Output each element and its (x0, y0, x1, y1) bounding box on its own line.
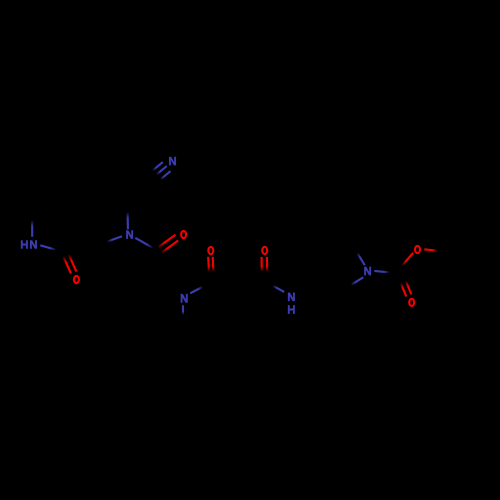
amide2 C=O line a (261, 257, 263, 271)
bond ring-N left (108, 236, 123, 241)
label nitrile N (170, 157, 175, 166)
label H of HN (22, 240, 27, 249)
label ring N (127, 230, 132, 239)
lactam C=O line b (69, 255, 77, 272)
bond N1 down (methyl) (182, 305, 184, 314)
bond C2 to N2H (273, 286, 284, 292)
label ester O single (415, 246, 420, 253)
ester O to tBu (424, 249, 437, 250)
acyl C=O line a (158, 235, 175, 248)
amide1 C=O line b (212, 257, 215, 272)
nitrile triple line a (153, 162, 163, 170)
nitrile triple line c (161, 171, 171, 179)
lactam C=O line a (63, 257, 71, 274)
label N1 (182, 294, 187, 303)
label N3 (365, 267, 370, 276)
bond N1 to C1 (190, 287, 202, 293)
label N2 (289, 293, 294, 302)
label H of N2 (289, 305, 294, 314)
label N of HN (31, 240, 36, 249)
bond ring-N to acyl C (135, 238, 152, 248)
amide2 C=O line b (266, 257, 268, 272)
bond HN right to lactam C (40, 245, 55, 249)
label amide1 O (208, 247, 213, 254)
label amide2 O (262, 247, 267, 254)
label ester O double (409, 299, 414, 306)
ester C-O single (402, 253, 413, 265)
ester C=O line a (401, 283, 406, 296)
bond HN up (N-C half) (31, 221, 33, 237)
amide1 C=O line a (207, 257, 210, 272)
label lactam O (74, 276, 79, 283)
bond N3 up-left (358, 253, 365, 265)
acyl C=O line b (162, 241, 179, 253)
bond N3 down-left (352, 277, 364, 284)
bond N3 right to carbamate C (374, 271, 389, 272)
nitrile triple line b (157, 166, 167, 174)
bond ring-N up (127, 213, 129, 230)
ester C=O line b (406, 281, 412, 294)
label acyl O (181, 231, 186, 238)
